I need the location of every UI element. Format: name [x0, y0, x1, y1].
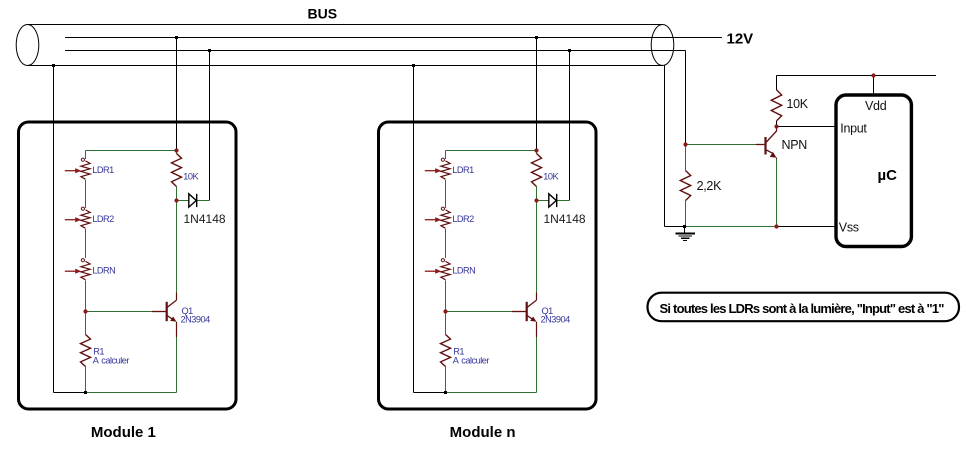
svg-text:Vss: Vss: [839, 221, 859, 235]
svg-text:10K: 10K: [787, 97, 809, 111]
svg-text:Si toutes les LDRs sont à la l: Si toutes les LDRs sont à la lumière, "I…: [660, 301, 945, 316]
svg-text:NPN: NPN: [782, 138, 808, 152]
svg-text:2,2K: 2,2K: [697, 179, 722, 193]
svg-text:12V: 12V: [727, 31, 754, 48]
svg-text:Module 1: Module 1: [91, 424, 156, 441]
svg-text:Module n: Module n: [450, 424, 516, 441]
svg-text:BUS: BUS: [308, 5, 338, 21]
svg-text:µC: µC: [878, 167, 898, 184]
svg-text:Input: Input: [840, 121, 867, 135]
svg-text:Vdd: Vdd: [865, 99, 887, 113]
